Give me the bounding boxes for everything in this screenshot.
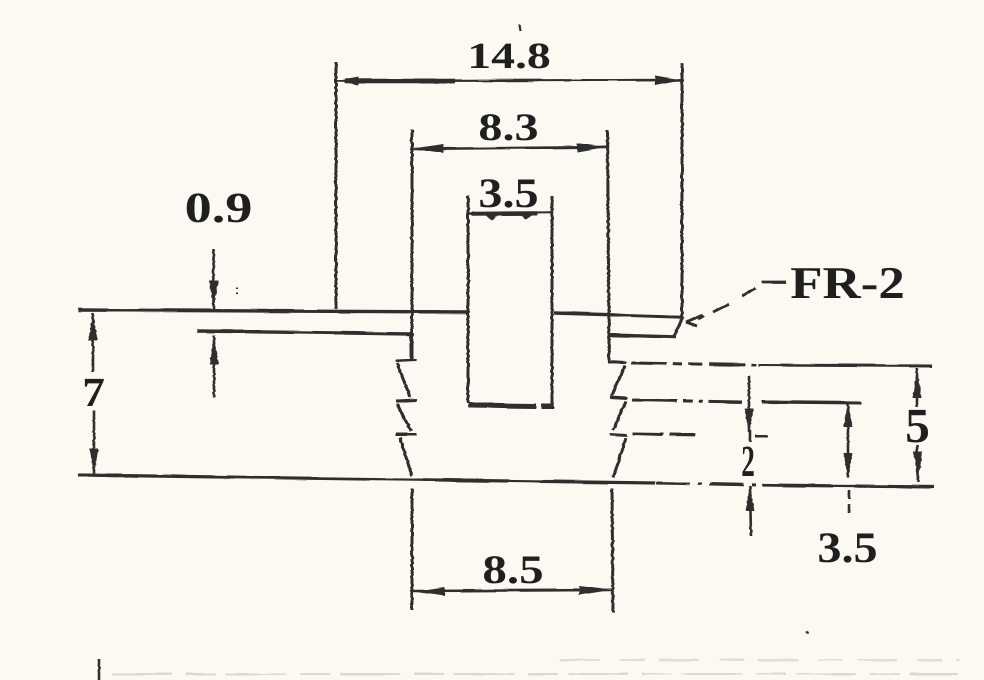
centerline 1 dash-dot: [631, 363, 756, 365]
dim 2 upper tail: [748, 376, 751, 432]
stem right wall: [608, 336, 611, 361]
stem right tooth2 flank: [613, 401, 626, 430]
stem right tooth1 flank: [612, 366, 625, 395]
bottom line right solid part: [762, 485, 934, 487]
dim 7 down arrowhead: [90, 448, 99, 475]
dim 2 tick across line3: [749, 430, 752, 442]
dim 2 up arrowhead: [746, 485, 755, 511]
bottom page faint dashed line: [112, 673, 958, 675]
slot bottom thick line: [468, 405, 536, 406]
FR-2 leader diagonal dash 2: [713, 304, 729, 312]
FR-2 leader diagonal dash 1: [742, 288, 756, 296]
stem right tooth3 top: [610, 434, 627, 435]
dim 3.5 top dimension line: [468, 212, 552, 213]
dim 14.8 left arrowhead: [338, 77, 358, 85]
slot bottom thick line right piece: [541, 404, 554, 409]
dim 3.5 right tail below: [848, 490, 851, 516]
dim 14.8 dimension line: [336, 80, 682, 81]
dim 2 down arrowhead: [745, 409, 754, 434]
dim 0.9 down arrowhead: [209, 280, 219, 309]
stem left tooth2 top: [396, 400, 417, 401]
dim 3.5 right down arrowhead: [844, 453, 853, 479]
part top surface left of slot: [78, 310, 468, 312]
bottom line dash-dot part: [656, 483, 760, 485]
stem left wall: [410, 334, 413, 360]
top small speck: [519, 24, 520, 31]
centerline 2 dash-dot: [632, 400, 742, 402]
dim 5 down arrowhead: [914, 452, 923, 481]
bottom line solid part: [78, 475, 655, 483]
bottom page tick: [98, 659, 101, 680]
stem left tooth3 flank: [400, 438, 412, 476]
svg-text:5: 5: [905, 398, 930, 453]
svg-text:0.9: 0.9: [185, 185, 253, 232]
dim 8.3 right arrowhead: [577, 143, 606, 152]
stem left tooth3 top: [396, 433, 417, 436]
dim 0.9 up arrowhead: [210, 336, 219, 364]
part flange underside right: [609, 335, 676, 337]
centerline 3 short dash: [755, 435, 768, 438]
stem right tooth3 flank: [613, 438, 626, 478]
FR-2 leader dot: [698, 316, 704, 319]
dim 3.5 top dimension line thick smudge: [472, 211, 537, 216]
FR-2 leader horizontal dash: [762, 281, 786, 284]
speck bottom right: [806, 632, 809, 633]
dim 8.5 left arrowhead: [413, 587, 445, 596]
dim 8.3 extension line right: [608, 130, 610, 336]
dim 2 lower tail: [750, 486, 751, 536]
dim 14.8 extension line right: [681, 63, 684, 317]
stem left tooth1 top: [396, 360, 417, 361]
dim 14.8 extension line left: [335, 62, 338, 309]
stem left tooth1 flank: [397, 363, 410, 397]
dim 3.5 right line: [847, 402, 850, 478]
FR-2 leader arrow hook: [686, 315, 703, 326]
dim 3.5 top left tick: [485, 214, 499, 221]
dim 8.3 left arrowhead: [413, 144, 443, 153]
dim 7 up arrowhead: [89, 312, 98, 340]
dim 8.3 extension line left: [411, 130, 414, 359]
svg-text:3.5: 3.5: [817, 524, 877, 572]
part top surface right of slot: [554, 313, 683, 317]
dim 3.5 top extension line left / slot left wall: [467, 196, 470, 404]
dim 8.5 dimension line: [412, 590, 612, 591]
svg-text:7: 7: [82, 369, 105, 415]
stem right tooth2 top: [610, 397, 627, 398]
dim 3.5 right up arrowhead: [844, 402, 853, 427]
dim 8.5 right arrowhead: [579, 586, 611, 595]
svg-text:14.8: 14.8: [467, 36, 551, 77]
part right flange tip: [674, 317, 683, 336]
svg-text:8.3: 8.3: [478, 106, 538, 149]
centerline 3 dash-dot: [633, 434, 700, 435]
dim 0.9 upper arrow tail: [212, 249, 215, 309]
stem right tooth1 top: [608, 362, 626, 363]
svg-text:3.5: 3.5: [478, 171, 538, 217]
dim 8.5 extension line left: [411, 489, 414, 610]
dim 3.5 top right tick: [519, 214, 533, 221]
svg-text:8.5: 8.5: [482, 547, 543, 592]
centerline 2 solid: [762, 402, 862, 403]
dim 7 line lower: [93, 410, 96, 474]
dim 5 line upper: [916, 368, 919, 407]
stem left tooth2 flank: [397, 404, 411, 431]
dim 8.3 dimension line: [412, 147, 607, 149]
centerline 1 solid: [758, 365, 932, 366]
dim 14.8 thick segment: [345, 79, 455, 84]
dim 5 up arrowhead: [913, 368, 922, 398]
speck near 0.9: [236, 287, 238, 296]
dim 8.5 extension line right: [612, 489, 613, 613]
dim 14.8 right arrowhead: [655, 76, 681, 86]
dim 0.9 lower arrow tail: [213, 336, 216, 397]
dim 3.5 top extension line right / slot right wall: [551, 196, 554, 404]
bottom page faint dashed line 2: [560, 659, 960, 661]
svg-text:FR-2: FR-2: [790, 257, 905, 308]
svg-text:2: 2: [741, 436, 755, 486]
dim 7 line upper: [92, 313, 95, 372]
part flange underside left: [197, 331, 412, 334]
dim 5 line lower: [917, 445, 918, 482]
